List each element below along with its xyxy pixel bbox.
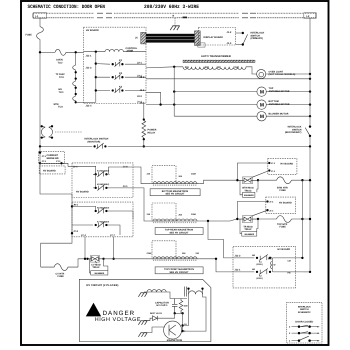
svg-text:MAGNETRON: MAGNETRON: [167, 339, 183, 342]
wire: left feed chain: [40, 163, 72, 267]
wire: L2 rail upper: [309, 18, 311, 127]
svg-text:J11-2: J11-2: [235, 254, 242, 257]
svg-text:208: 208: [205, 66, 210, 69]
thermal cutout: OVEN TCO: [55, 49, 66, 55]
node: motor1 rail junction: [309, 90, 311, 92]
svg-text:230: 230: [185, 66, 190, 69]
relay contact K4: [95, 171, 108, 177]
node: lamp rail junction: [309, 73, 311, 75]
wire: L2 rail lower: [309, 136, 311, 272]
svg-text:K5 NO(230V): K5 NO(230V): [97, 183, 109, 186]
svg-text:DANGER: DANGER: [103, 310, 135, 317]
svg-text:TRIAC: TRIAC: [92, 266, 100, 269]
svg-text:ANTENNA MOTOR: ANTENNA MOTOR: [269, 90, 290, 93]
wire: fuse1 to rail: [292, 179, 311, 181]
svg-text:10M: 10M: [184, 304, 188, 307]
svg-text:J11-4: J11-4: [86, 104, 93, 107]
svg-text:CAPACITOR: CAPACITOR: [155, 301, 169, 304]
svg-text:BOTTOM MAGNETRON: BOTTOM MAGNETRON: [162, 190, 189, 193]
svg-text:COM: COM: [191, 213, 196, 216]
wire: display to primary interlock bottom: [236, 44, 243, 46]
node: cluster crossover junction: [301, 257, 303, 259]
node: motor line junction a: [173, 90, 175, 92]
wire: blower motor line: [174, 115, 310, 117]
snubber 2: [240, 219, 258, 234]
node: coil3 out junction: [215, 258, 217, 260]
wire: K5 row: [93, 174, 150, 221]
svg-text:HV CIRCUIT (2 PLACES): HV CIRCUIT (2 PLACES): [86, 284, 118, 287]
svg-text:SWITCH: SWITCH: [300, 308, 309, 311]
node: fuse1 rail junction: [309, 179, 311, 181]
node: magnetron FA terminal: [181, 324, 183, 326]
svg-text:NO: NO: [252, 254, 255, 257]
inductor: auto transformer winding: [183, 67, 246, 70]
svg-text:HV BOARD: HV BOARD: [281, 163, 294, 166]
wire: rail to cluster: [302, 271, 310, 273]
motor: top antenna motor: [257, 87, 266, 96]
node: TCO chain top: [75, 51, 77, 53]
svg-text:OVEN LIGHT: OVEN LIGHT: [269, 70, 284, 73]
wire: bottom antenna motor line: [146, 104, 310, 106]
node: secondary left terminal: [187, 287, 189, 289]
svg-text:TRIAC: TRIAC: [244, 228, 252, 231]
node: motor line junction b: [173, 103, 175, 105]
connector: ribbon plug right: [195, 31, 201, 46]
ground: diode ground: [138, 321, 147, 325]
svg-text:TOP: TOP: [269, 87, 274, 90]
node: fuse2 crossover junction: [301, 218, 303, 220]
relay contact K6: [95, 208, 108, 214]
wire: K1 row: [96, 63, 146, 66]
svg-text:INTERLOCK: INTERLOCK: [251, 32, 265, 35]
svg-text:J3-2: J3-2: [140, 89, 145, 92]
svg-text:J3-3: J3-3: [140, 102, 145, 105]
node: rail K1 junction: [95, 62, 97, 64]
svg-text:OVEN: OVEN: [56, 59, 63, 62]
op board: current sense board box: [38, 151, 64, 163]
switch row 3: [289, 336, 319, 342]
motor: bottom antenna motor: [257, 100, 266, 109]
svg-text:(PRIMARY): (PRIMARY): [251, 37, 264, 40]
wire: fuse2 to rail: [292, 218, 311, 220]
svg-text:ANTENNA MOTOR: ANTENNA MOTOR: [269, 103, 290, 106]
transformer core bar: [183, 60, 255, 62]
op board: DISPLAY BOARD box: [199, 28, 236, 46]
door plunger mechanism: [41, 125, 54, 139]
transformer primary: top rear magnetron: [147, 203, 200, 223]
relay contact K2: [112, 74, 124, 79]
svg-text:CV MAG: CV MAG: [91, 263, 101, 266]
wire: gate drive 1: [252, 171, 270, 178]
wire: K2 row: [96, 76, 146, 78]
snubber 3: [90, 259, 108, 273]
wire: to oven TCO: [41, 51, 55, 53]
switch: interlock monitor contact: [93, 143, 106, 149]
node: power relay to monitor line: [143, 145, 145, 147]
svg-text:TOP FRONT MAGNETRON: TOP FRONT MAGNETRON: [164, 268, 194, 271]
transformer tap labels: [185, 65, 241, 69]
svg-text:DISPLAY BOARD: DISPLAY BOARD: [204, 36, 224, 39]
op board: HV BOARD relay output box: [233, 246, 296, 288]
transformer core HV: [185, 287, 187, 297]
svg-text:CONTROL: CONTROL: [126, 47, 138, 50]
node: monitor rail junction: [309, 145, 311, 147]
op board: HV BOARD triac driver 2: [266, 197, 296, 213]
svg-text:TF 150C: TF 150C: [56, 73, 66, 76]
svg-text:FUSE: FUSE: [58, 275, 65, 278]
wire: K4 row: [72, 166, 121, 174]
node: J7-7 junction: [112, 258, 114, 260]
relay contact K10: [256, 269, 271, 275]
power bus bar L1-N-L2: [33, 13, 316, 18]
node: K3 feed junction: [95, 89, 97, 91]
wire: triac3 to coil3: [104, 258, 151, 260]
wire: board inner rail: [95, 52, 97, 103]
svg-text:(220V): (220V): [257, 263, 263, 266]
node: crossover junction: [301, 179, 303, 181]
svg-text:SNUBBER: SNUBBER: [244, 194, 254, 197]
relay contact K3: [112, 88, 124, 93]
svg-text:HV BOARD: HV BOARD: [86, 29, 99, 32]
ground: neutral chassis ground: [170, 26, 180, 30]
svg-text:J1-3: J1-3: [227, 42, 232, 45]
transformer primary HV: [147, 290, 166, 292]
mechanical linkage dashed: [55, 131, 82, 133]
wire: magnetron grounds: [144, 321, 165, 333]
label box: top front magnetron: [155, 267, 203, 274]
switch row 2: [289, 332, 319, 335]
wire: coil2 out branch to relay box pin J11-2: [208, 221, 233, 258]
wire: coil RY vertical: [271, 258, 273, 272]
svg-text:TCO: TCO: [58, 61, 63, 64]
node: TCO junction d: [75, 93, 77, 95]
svg-text:COM: COM: [191, 173, 196, 176]
wire: oven TCO to HV board pin J11-1: [66, 51, 84, 53]
resistor: bleed resistor: [179, 299, 183, 314]
node: cap node a: [174, 312, 176, 314]
wire: coil1 to triac1: [200, 180, 237, 184]
wire: transformer feed: [146, 67, 183, 68]
node: control line junction: [95, 51, 97, 53]
svg-text:TR MAG: TR MAG: [243, 225, 253, 228]
wire: driver 1 feed: [237, 163, 269, 180]
svg-text:HV BOARD: HV BOARD: [43, 169, 56, 172]
svg-text:HV BOARD: HV BOARD: [279, 201, 292, 204]
fuse: BTM HTR FUSE: [277, 177, 292, 184]
cable: ribbon to display board: [146, 34, 195, 43]
svg-text:RECT HV D1: RECT HV D1: [150, 312, 163, 315]
switch: interlock switch primary: [242, 32, 248, 46]
svg-text:TOP REAR MAGNETRON: TOP REAR MAGNETRON: [165, 229, 194, 232]
wire: K4 output to bottom coil: [106, 167, 150, 184]
wire: L1 rail left side: [39, 39, 41, 146]
switch row 1: [289, 325, 319, 328]
thermal cutout: HS TCO: [73, 81, 76, 86]
node: TCO chain bottom: [75, 101, 77, 103]
svg-text:TCO: TCO: [59, 91, 64, 94]
svg-text:SWITCH: SWITCH: [292, 128, 302, 131]
svg-text:DOOR CLOSED: DOOR CLOSED: [295, 320, 313, 323]
svg-text:STM: STM: [54, 103, 59, 106]
svg-text:SEE HV CIRCUIT: SEE HV CIRCUIT: [169, 231, 189, 234]
TCO chain vertical wire: [75, 52, 77, 102]
svg-text:J7-4: J7-4: [81, 234, 86, 237]
node: current sense top: [39, 151, 41, 153]
wire: K3 row: [96, 90, 146, 92]
svg-text:(SECONDARY): (SECONDARY): [285, 131, 302, 134]
svg-text:J4-1: J4-1: [123, 185, 128, 188]
svg-text:FM: FM: [288, 271, 291, 274]
svg-text:HIGH VOLTAGE: HIGH VOLTAGE: [95, 317, 141, 323]
svg-text:CV HTR: CV HTR: [56, 272, 65, 275]
wire: K9 row: [233, 257, 302, 259]
svg-text:(NOT ON ALL MODELS): (NOT ON ALL MODELS): [269, 73, 296, 76]
svg-text:J2-3: J2-3: [140, 76, 145, 79]
wire: crossover vertical: [301, 180, 303, 258]
triac TR-1: [236, 177, 259, 184]
wire: ground to primary: [144, 291, 147, 293]
svg-text:FUSE: FUSE: [280, 189, 287, 192]
svg-text:208/230V 60Hz 3-WIRE: 208/230V 60Hz 3-WIRE: [144, 4, 199, 10]
lamp: oven light: [257, 69, 266, 78]
svg-text:SEE HV CIRCUIT: SEE HV CIRCUIT: [169, 271, 189, 274]
connector: display board small plug: [198, 43, 205, 47]
node: cap node b: [181, 312, 183, 314]
svg-text:J7-2: J7-2: [73, 230, 78, 233]
svg-text:J11-3: J11-3: [86, 66, 93, 69]
svg-text:SENSE BD: SENSE BD: [47, 157, 59, 160]
svg-text:BTM HTR: BTM HTR: [277, 186, 288, 189]
svg-text:J11-1: J11-1: [86, 55, 93, 58]
fuse: TOP HTR FUSE: [277, 216, 292, 223]
svg-text:CURRENT: CURRENT: [47, 154, 59, 157]
wire: J7-4 drop: [84, 237, 86, 259]
wire: control transformer line: [84, 51, 147, 53]
connector: ribbon plug left: [141, 32, 146, 44]
svg-text:J1-2: J1-2: [227, 31, 232, 34]
svg-text:J2-1: J2-1: [137, 61, 142, 64]
triac TR-2: [236, 216, 259, 223]
magnetron tube: [164, 321, 182, 339]
svg-text:BTM MAG: BTM MAG: [242, 187, 253, 190]
svg-text:(MONITOR): (MONITOR): [88, 140, 101, 143]
wire: coil3 out to relay box pin J11-1: [200, 259, 233, 272]
transformer primary: bottom magnetron: [147, 166, 200, 186]
ground: magnetron case ground: [138, 333, 147, 337]
wire: oven light to L2 rail: [266, 73, 310, 75]
wire: cap bottom node: [175, 312, 183, 314]
svg-text:K7 NO(230V): K7 NO(230V): [97, 220, 109, 223]
relay contact K1: [112, 61, 124, 66]
node: motor2 rail junction: [309, 103, 311, 105]
op box: HV CIRCUIT detail: [79, 279, 211, 341]
svg-text:N: N: [173, 14, 175, 17]
svg-text:SNUBBER: SNUBBER: [94, 272, 104, 275]
relay contact K9: [256, 255, 271, 261]
wire: J11-4 to K3: [84, 101, 96, 103]
svg-text:BLOWER MOTOR: BLOWER MOTOR: [269, 113, 289, 116]
wire: neutral tap to ground: [174, 18, 176, 26]
node: secondary right terminal: [201, 287, 203, 289]
svg-text:SWITCH: SWITCH: [251, 34, 261, 37]
bus bar tick: [183, 17, 188, 19]
svg-text:TOP HTR: TOP HTR: [277, 223, 288, 226]
wire: board pin J2-3 line to rail: [146, 78, 310, 80]
fuse: CONV fuse: [41, 264, 78, 271]
wire: coil2 to triac2: [200, 219, 236, 221]
op box: interlock switch schematic: [287, 303, 322, 343]
svg-text:TCO: TCO: [59, 76, 64, 79]
op board: HV relay board lower box: [72, 202, 133, 237]
node: coil2 branch junction: [207, 220, 209, 222]
wire: triac2 to TOP heater fuse: [258, 218, 277, 220]
svg-text:K4 NO(230V): K4 NO(230V): [97, 170, 109, 173]
wire: driver 2 feed: [237, 202, 267, 220]
node: L1 rail junction: [39, 51, 41, 53]
wire: K7 row: [72, 225, 120, 235]
wire: conv fuse to triac3: [78, 259, 86, 267]
svg-text:J11-1: J11-1: [235, 268, 242, 271]
node: rail junction y79: [309, 78, 311, 80]
wire: transformer COM to oven light: [246, 67, 257, 74]
transformer secondary HV: [189, 291, 203, 294]
motor: blower motor: [257, 112, 266, 121]
wire: triac1 to BTM heater fuse: [258, 179, 277, 181]
svg-text:COM: COM: [233, 66, 239, 69]
svg-text:NO: NO: [252, 268, 255, 271]
wire: monitor line: [40, 145, 310, 147]
svg-text:SCHEMATIC: SCHEMATIC: [298, 311, 311, 314]
wire: K6 row: [72, 206, 133, 219]
ground: HV transformer ground: [138, 293, 147, 297]
inductor: control transformer winding: [105, 49, 123, 51]
svg-text:CM: CM: [288, 259, 291, 262]
node: transformer feed junction: [173, 66, 175, 68]
node: TCO junction c: [75, 87, 77, 89]
wire: node to magnetron: [182, 313, 184, 331]
relay contact K5: [95, 185, 108, 191]
node: TCO junction a: [75, 71, 77, 73]
op board: HV BOARD label box lower left: [39, 166, 65, 174]
svg-text:INTERLOCK: INTERLOCK: [288, 126, 302, 129]
triac TR-3: [86, 256, 104, 264]
svg-text:K6 NO(230V): K6 NO(230V): [97, 206, 109, 209]
svg-text:SCHEMATIC CONDITION: DOOR OPEN: SCHEMATIC CONDITION: DOOR OPEN: [28, 4, 106, 10]
svg-text:HV BOARD: HV BOARD: [76, 190, 89, 193]
wire: gate drive 2: [251, 210, 267, 216]
warning triangle: [86, 303, 101, 317]
svg-text:COM: COM: [147, 252, 152, 255]
svg-text:HV CAP-1: HV CAP-1: [157, 304, 169, 307]
node: motor3 rail junction: [309, 115, 311, 117]
node: monitor left junction: [39, 145, 41, 147]
svg-text:POWER: POWER: [148, 129, 157, 132]
wire: L1 drop to fuse: [39, 18, 41, 27]
svg-text:(220V): (220V): [257, 277, 263, 280]
svg-text:HS: HS: [59, 88, 63, 91]
node: magnetron F terminal: [181, 330, 183, 332]
thermal cutout: STM TCO: [73, 96, 76, 101]
capacitor: HV capacitor: [172, 299, 177, 314]
wire: current sense output to relay board: [40, 163, 72, 166]
node: TCO junction b: [75, 77, 77, 79]
svg-text:INTERLOCK: INTERLOCK: [298, 306, 311, 309]
transformer primary: top front magnetron: [147, 241, 200, 260]
svg-text:SEE HV CIRCUIT: SEE HV CIRCUIT: [165, 193, 185, 196]
svg-text:J7-7: J7-7: [110, 234, 115, 237]
op board: HV BOARD triac driver 1: [268, 159, 297, 175]
thermal cutout: TF 150C TCO: [73, 65, 76, 70]
wire: K10 row: [233, 271, 302, 273]
wire: TCO chain to board pin J11-4: [76, 101, 84, 103]
node: CT2 junction: [60, 162, 62, 164]
svg-text:FUSE: FUSE: [280, 226, 287, 229]
node: triac3 in junction: [84, 258, 86, 260]
svg-text:J2-2: J2-2: [137, 95, 142, 98]
svg-text:TRIAC: TRIAC: [244, 189, 252, 192]
snubber 1: [240, 180, 258, 195]
relay coil: RY: [268, 257, 272, 269]
label box: top rear magnetron: [155, 228, 203, 235]
wire: L1 rail through current sense: [39, 146, 41, 163]
svg-text:SNUBBER: SNUBBER: [244, 233, 254, 236]
node: J9-1 junction: [71, 205, 73, 207]
svg-text:BOTTOM: BOTTOM: [269, 100, 279, 103]
node: rail K2 junction: [95, 76, 97, 78]
svg-text:RELAY: RELAY: [148, 131, 156, 134]
switch: interlock switch secondary: [305, 125, 311, 137]
node: J7-2 junction: [71, 232, 73, 234]
svg-text:INTERLOCK SWITCH: INTERLOCK SWITCH: [85, 138, 109, 141]
svg-text:M: M: [260, 89, 264, 95]
node: rail end junction: [309, 271, 311, 273]
svg-text:120: 120: [217, 66, 222, 69]
wire: transformer feed drop: [173, 67, 175, 116]
node: current sense bottom: [39, 162, 41, 164]
node: fuse2 rail junction: [309, 218, 311, 220]
wire: secondary to filament: [183, 294, 206, 331]
wire: primary to cap node: [166, 292, 187, 299]
wire: display to primary interlock top: [236, 32, 243, 34]
svg-text:FUSE: FUSE: [26, 34, 33, 37]
label box: bottom magnetron: [150, 189, 200, 196]
svg-text:M: M: [260, 102, 264, 108]
svg-text:W: W: [274, 263, 276, 266]
svg-text:TCO: TCO: [58, 106, 63, 109]
wire: top antenna motor line: [146, 92, 310, 105]
relay contact K7: [95, 222, 108, 228]
fuse: line fuse: [37, 27, 44, 40]
op board: HV BOARD control box: [84, 27, 147, 103]
svg-text:XFMR: XFMR: [127, 49, 134, 52]
svg-text:M: M: [260, 114, 264, 120]
svg-text:AUTO TRANSFORMER: AUTO TRANSFORMER: [201, 55, 231, 58]
relay coil: power relay: [143, 104, 145, 120]
wire: J7-7 drop: [113, 237, 115, 259]
svg-text:HV BOARD: HV BOARD: [278, 248, 291, 251]
op board: HV relay board upper box: [72, 163, 133, 198]
